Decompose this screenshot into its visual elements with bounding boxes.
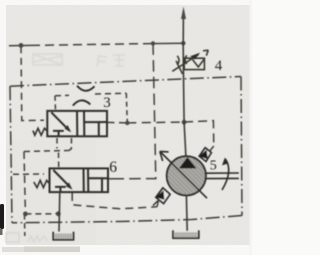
svg-text:4: 4 <box>215 58 223 74</box>
svg-text:3: 3 <box>103 95 111 111</box>
svg-text:6: 6 <box>109 159 117 176</box>
svg-text:5: 5 <box>210 158 217 173</box>
